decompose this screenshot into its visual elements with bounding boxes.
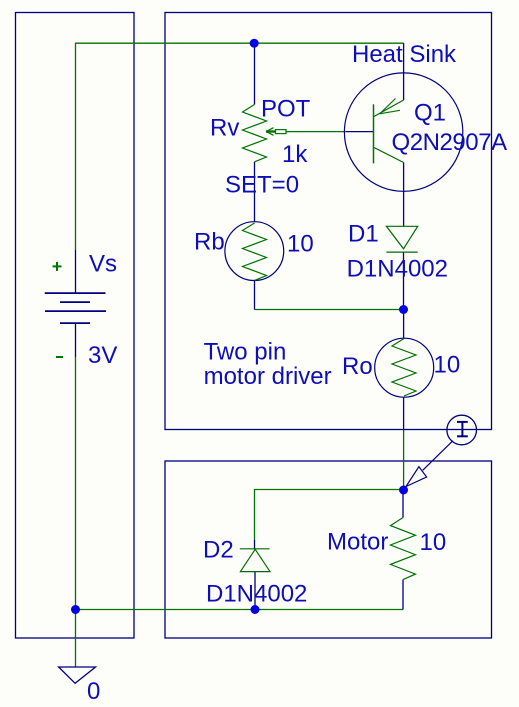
svg-text:D2: D2: [203, 537, 234, 564]
svg-text:10: 10: [434, 352, 461, 379]
svg-text:1k: 1k: [282, 141, 308, 168]
svg-text:POT: POT: [261, 96, 311, 123]
svg-text:10: 10: [287, 231, 314, 258]
svg-text:Heat Sink: Heat Sink: [352, 41, 457, 68]
svg-text:SET=0: SET=0: [225, 172, 299, 199]
svg-text:Ro: Ro: [342, 353, 373, 380]
svg-text:D1: D1: [348, 221, 379, 248]
svg-text:D1N4002: D1N4002: [347, 256, 448, 283]
svg-text:Vs: Vs: [89, 251, 117, 278]
svg-text:10: 10: [420, 529, 447, 556]
svg-text:motor driver: motor driver: [204, 363, 332, 390]
svg-text:Rv: Rv: [210, 115, 239, 142]
svg-text:D1N4002: D1N4002: [206, 580, 307, 607]
svg-text:Q1: Q1: [414, 100, 446, 127]
svg-text:Motor: Motor: [327, 529, 388, 556]
svg-text:3V: 3V: [88, 342, 117, 369]
svg-text:Rb: Rb: [194, 229, 225, 256]
svg-text:Q2N2907A: Q2N2907A: [392, 129, 508, 156]
svg-text:Two pin: Two pin: [204, 339, 287, 366]
svg-text:0: 0: [87, 678, 100, 705]
